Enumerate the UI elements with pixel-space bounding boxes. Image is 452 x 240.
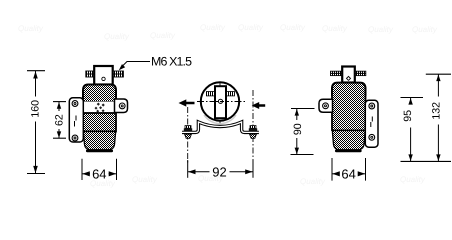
svg-text:Quality: Quality <box>150 31 176 40</box>
right view bottom section <box>332 131 365 151</box>
svg-text:Quality: Quality <box>300 177 326 186</box>
svg-text:64: 64 <box>92 166 106 181</box>
dimension 64 right view <box>332 158 366 181</box>
left view right tab <box>115 99 128 113</box>
dimension 64 left view <box>82 159 117 182</box>
svg-text:132: 132 <box>431 102 443 120</box>
svg-text:M6 X1.5: M6 X1.5 <box>151 55 192 69</box>
center view thread stubs <box>206 92 234 96</box>
center view bolt centerline left <box>187 107 189 163</box>
shared bottom tick 95/132 <box>401 160 452 162</box>
left view threaded rod M6 <box>86 71 124 77</box>
center view block (top of bracket) <box>215 86 226 118</box>
left view divider line <box>84 131 116 133</box>
dimension 90 <box>291 109 315 155</box>
right view top block <box>342 67 355 83</box>
right view divider line <box>333 130 366 132</box>
svg-text:Quality: Quality <box>368 25 394 34</box>
center view left port arrow <box>179 99 195 106</box>
left view desiccant specks <box>95 103 105 113</box>
center view mounting strap <box>182 122 259 132</box>
center view drier circle <box>201 82 239 120</box>
svg-text:Quality: Quality <box>104 32 130 41</box>
svg-text:Quality: Quality <box>322 24 348 33</box>
svg-text:Quality: Quality <box>280 23 306 32</box>
right view left tab <box>319 99 333 112</box>
dimension 132 <box>426 74 451 161</box>
left view sight glass band <box>83 102 116 114</box>
leader M6 X1.5 <box>119 62 150 71</box>
svg-text:Quality: Quality <box>400 175 426 184</box>
dimension 92 <box>188 160 253 179</box>
center view centerlines <box>197 83 245 124</box>
right view threaded rod <box>331 71 366 75</box>
svg-text:Quality: Quality <box>200 23 226 32</box>
center view right port arrow <box>252 102 266 109</box>
svg-text:Quality: Quality <box>412 25 438 34</box>
svg-text:160: 160 <box>30 100 42 118</box>
center view left bolt <box>184 126 192 139</box>
center view crosshair over block <box>214 101 227 103</box>
svg-text:95: 95 <box>402 110 414 122</box>
center view right bolt <box>249 126 257 139</box>
left view body dome <box>83 85 116 103</box>
right view body dome <box>332 83 366 96</box>
svg-text:64: 64 <box>341 166 355 181</box>
dimension 160 <box>27 71 45 174</box>
left view middle band <box>83 113 116 132</box>
svg-text:62: 62 <box>54 114 66 126</box>
watermark row bottom <box>90 174 426 188</box>
svg-text:90: 90 <box>292 123 304 135</box>
svg-text:92: 92 <box>212 164 226 179</box>
watermark row top <box>18 23 438 41</box>
left view bottom section <box>83 132 115 151</box>
svg-text:Quality: Quality <box>18 24 44 33</box>
right view right bracket <box>365 100 378 147</box>
dimension 95 <box>401 98 424 162</box>
svg-text:Quality: Quality <box>238 23 264 32</box>
right view body <box>333 94 365 131</box>
center view gray shadow under circle <box>204 115 236 124</box>
center view center hole <box>218 99 222 103</box>
left view left bracket <box>69 98 83 142</box>
svg-text:Quality: Quality <box>132 175 158 184</box>
left view top block <box>94 66 113 85</box>
dimension 62 <box>53 102 66 139</box>
center view bolt centerline right <box>252 90 254 163</box>
